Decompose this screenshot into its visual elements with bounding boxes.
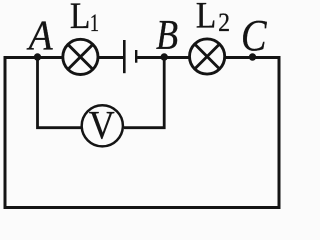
svg-text:A: A	[26, 12, 53, 59]
svg-text:L: L	[196, 0, 217, 36]
svg-text:B: B	[156, 13, 178, 59]
svg-text:1: 1	[90, 8, 99, 37]
svg-text:C: C	[241, 10, 267, 59]
svg-text:2: 2	[218, 9, 230, 37]
svg-text:V: V	[89, 104, 115, 148]
svg-text:L: L	[70, 0, 91, 37]
